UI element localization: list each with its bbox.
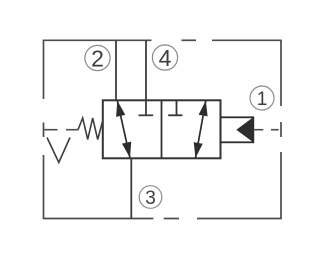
flow arrow left square (ports 2-3) shaft — [117, 101, 130, 159]
valve position divider — [161, 100, 163, 158]
port label circle 1 — [250, 86, 274, 110]
flow arrow right square upper arrowhead — [199, 101, 208, 117]
enclosure left border dash — [43, 123, 45, 138]
port label circle 2 — [85, 45, 110, 70]
spring pilot dashed line — [44, 129, 58, 131]
port 3 line — [130, 158, 132, 218]
port 1 dashed line — [254, 129, 263, 131]
vent V symbol — [47, 138, 70, 163]
svg-text:4: 4 — [159, 45, 172, 71]
spring pilot dashed line segment 2 — [66, 129, 79, 131]
pilot pressure triangle — [236, 117, 253, 142]
svg-text:1: 1 — [257, 89, 268, 110]
blocked port T (right square, stub) — [176, 100, 178, 115]
port label circle 3 — [139, 186, 162, 209]
flow arrow right square (ports 4-3) shaft — [196, 101, 206, 159]
valve body box — [103, 100, 221, 158]
enclosure top border dash — [182, 39, 197, 41]
enclosure bottom border (solid run + left corner) — [44, 155, 154, 219]
port 2 line — [115, 40, 117, 100]
port 4 line — [145, 40, 147, 115]
port 1 dashed line segment 2 — [271, 129, 279, 131]
enclosure top border (solid left run) — [44, 40, 152, 99]
port label circle 4 — [152, 45, 177, 70]
flow arrow left square lower arrowhead — [122, 142, 131, 158]
svg-text:2: 2 — [91, 45, 104, 71]
blocked port T-bar (left square, port 4) — [139, 114, 154, 116]
spring (left actuator) — [78, 118, 103, 140]
enclosure right border dash — [280, 122, 282, 137]
blocked port T-bar (right square) — [168, 114, 182, 116]
flow arrow left square upper arrowhead — [116, 101, 125, 117]
flow arrow right square lower arrowhead — [194, 142, 203, 158]
enclosure bottom border dash — [164, 218, 179, 220]
pilot actuator box — [221, 117, 254, 142]
enclosure top border (solid right run + right corner) — [212, 40, 281, 106]
svg-text:3: 3 — [145, 188, 156, 209]
enclosure right border (solid run + bottom corner) — [197, 152, 281, 219]
